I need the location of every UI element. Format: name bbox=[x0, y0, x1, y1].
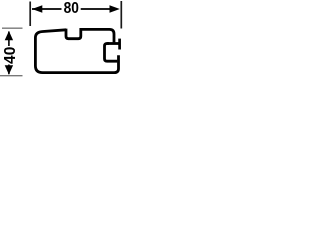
svg-text:40: 40 bbox=[2, 46, 19, 64]
arrowhead left of 80 dimension bbox=[32, 5, 42, 13]
arrowhead up of 40 dimension bbox=[5, 31, 13, 40]
slot top arm A bbox=[107, 42, 120, 45]
extension line right of 80 dimension bbox=[120, 1, 122, 29]
C slot inner wall (top arm, left wall, bottom arm) bbox=[105, 44, 118, 62]
extension line left of 80 dimension bbox=[29, 2, 31, 27]
extension line bottom of 40 dimension bbox=[0, 75, 23, 77]
extension line top of 40 dimension bbox=[2, 27, 23, 29]
top edge right part, top-right corner, right upper face down to slot arm bbox=[80, 29, 115, 42]
profile outline: top edge left part, left edge, bottom edge, lower-right face bbox=[35, 30, 118, 73]
dimension line 40 lower segment bbox=[8, 65, 10, 75]
upper lip bar B of C slot bbox=[118, 39, 121, 50]
dimension line 80 right segment bbox=[81, 8, 110, 10]
dimension line 80 left segment bbox=[32, 8, 62, 10]
dimension line 40 upper segment bbox=[8, 32, 10, 47]
arrowhead right of 80 dimension bbox=[110, 5, 120, 13]
top notch (U channel) bbox=[66, 28, 81, 39]
arrowhead down of 40 dimension bbox=[5, 65, 13, 74]
svg-text:80: 80 bbox=[64, 0, 80, 17]
